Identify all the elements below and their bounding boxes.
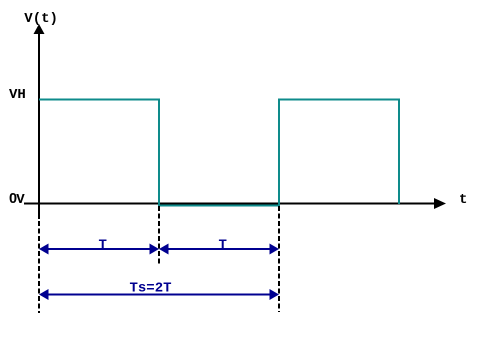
T dimension arrow 1 [39, 244, 159, 255]
svg-text:V: V [16, 192, 25, 208]
svg-text:VH: VH [9, 87, 26, 103]
dashed line at t=T [158, 206, 160, 265]
y-axis arrowhead [34, 24, 45, 34]
svg-text:V(t): V(t) [24, 11, 58, 27]
Ts=2T dimension arrow [39, 289, 279, 300]
y-axis V(t) [38, 30, 40, 219]
dashed line at t=2T [278, 206, 280, 312]
svg-text:T: T [99, 237, 107, 253]
x-axis t [24, 203, 437, 205]
svg-text:T: T [219, 237, 227, 253]
svg-text:Ts=2T: Ts=2T [130, 281, 172, 297]
T dimension arrow 2 [159, 244, 279, 255]
square wave V(t) [39, 100, 399, 206]
svg-text:t: t [459, 192, 467, 208]
x-axis arrowhead [434, 198, 446, 209]
dashed line at t=0 [38, 204, 40, 219]
